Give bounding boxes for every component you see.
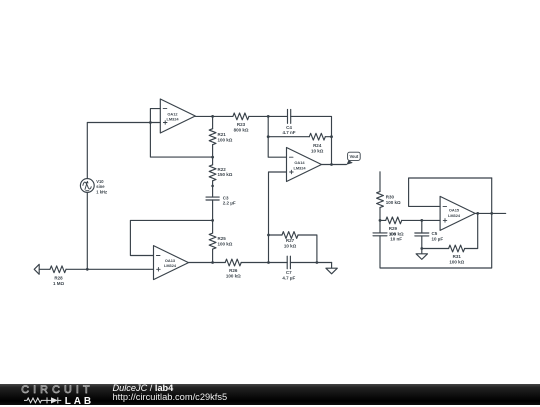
op-amp OA12: [160, 99, 195, 133]
svg-text:R28: R28: [54, 276, 63, 281]
node junction R21/R22/feedback: [211, 156, 214, 159]
svg-text:LM324: LM324: [293, 165, 306, 170]
node junction V10 bottom: [86, 268, 89, 271]
wire C7 to ground: [290, 262, 331, 264]
node junction R23/R24/OA14: [267, 115, 270, 118]
node junction R27/C7 right: [316, 261, 319, 264]
resistor R23: [233, 113, 249, 120]
wire C4 to right corner: [291, 116, 332, 136]
svg-text:R29: R29: [389, 226, 398, 231]
svg-text:OA14: OA14: [294, 160, 305, 165]
resistor R29: [386, 217, 402, 224]
wire branch down to R24: [267, 116, 269, 136]
wire R24 right: [325, 136, 331, 138]
logo LAB wordmark: [65, 396, 94, 407]
wire R31 up to output: [465, 213, 478, 248]
flag Vout: [346, 152, 360, 165]
svg-text:1 kHz: 1 kHz: [96, 189, 107, 194]
node junction R24 left: [267, 135, 270, 138]
op-amp OA15: [440, 196, 475, 230]
svg-text:LM324: LM324: [164, 263, 177, 268]
resistor R24: [309, 133, 325, 140]
footer url line: [113, 393, 228, 403]
logo resistor zigzag: [22, 396, 92, 406]
node junction OA13 output: [211, 261, 214, 264]
wire R30 top stub: [379, 172, 381, 192]
node junction OA14 + branch: [267, 261, 270, 264]
wire C6 bottom rail loop: [380, 178, 492, 268]
resistor R27: [282, 232, 298, 239]
footer title line: [113, 384, 174, 394]
node junction C5 top: [420, 219, 423, 222]
svg-text:100 kΩ: 100 kΩ: [226, 273, 241, 278]
svg-text:4.7 nF: 4.7 nF: [282, 130, 295, 135]
wire R26 to C7: [241, 262, 287, 264]
node junction C5 bottom / R31: [420, 247, 423, 250]
node junction OA14 output: [330, 163, 333, 166]
svg-text:OA13: OA13: [165, 258, 176, 263]
wire R27 left lead: [269, 234, 283, 236]
OA15 + input mark: [443, 219, 447, 223]
wire to OA14 - input: [268, 137, 286, 158]
node junction output / loop: [490, 212, 493, 215]
svg-text:C3: C3: [223, 195, 229, 200]
wire OA12 - input feedback: [150, 109, 212, 158]
resistor R22: [209, 157, 216, 186]
resistor R21: [209, 116, 216, 157]
svg-text:OA12: OA12: [167, 111, 178, 116]
svg-text:C4: C4: [286, 125, 292, 130]
ground symbol (bottom rail): [326, 263, 337, 274]
capacitor C4: [288, 109, 291, 123]
OA14 - input mark: [289, 156, 293, 158]
wire C5 node to R31: [422, 248, 449, 250]
svg-text:R25: R25: [218, 236, 227, 241]
OA13 - input mark: [156, 255, 160, 257]
node junction R24/C4 right: [330, 135, 333, 138]
svg-text:C7: C7: [286, 270, 292, 275]
capacitor C6: [373, 220, 387, 235]
wire OA13 - feedback loop: [130, 220, 212, 255]
resistor R31: [449, 245, 465, 252]
node junction R27 left: [267, 234, 270, 237]
op-amp OA14: [287, 148, 322, 182]
svg-text:800 kΩ: 800 kΩ: [234, 128, 249, 133]
capacitor C3: [206, 186, 219, 221]
wire OA14 + input: [269, 172, 287, 235]
svg-text:100 kΩ: 100 kΩ: [386, 200, 401, 205]
svg-text:150 kΩ: 150 kΩ: [218, 172, 233, 177]
svg-text:V10: V10: [96, 179, 104, 184]
OA14 + input mark: [290, 170, 294, 174]
svg-text:R26: R26: [229, 268, 238, 273]
wire OA15 - feedback loop: [409, 178, 492, 206]
footer bar: [0, 384, 540, 406]
resistor R25: [209, 220, 216, 262]
node junction R30/R29/C6: [379, 219, 382, 222]
svg-text:R23: R23: [237, 122, 246, 127]
node junction OA15 output / R31: [476, 212, 479, 215]
wire R29 to OA15 + input: [402, 219, 440, 221]
OA13 + input mark: [157, 268, 161, 272]
svg-text:10 kΩ: 10 kΩ: [311, 149, 324, 154]
svg-text:100 kΩ: 100 kΩ: [218, 241, 233, 246]
wire V10 bottom: [86, 192, 88, 269]
svg-text:100 kΩ: 100 kΩ: [449, 259, 464, 264]
svg-text:10 µF: 10 µF: [432, 236, 444, 241]
ground symbol (C5): [416, 249, 427, 260]
node junction at OA12 + / feedback crossing: [149, 121, 152, 124]
svg-text:2.2 µF: 2.2 µF: [223, 201, 236, 206]
wire R27 right, down to rail: [298, 235, 317, 263]
svg-text:Vout: Vout: [350, 154, 359, 159]
wire OA13 output: [189, 262, 226, 264]
wire R30 to node: [379, 208, 381, 221]
node junction C3/R25/feedback: [211, 219, 214, 222]
wire V10 top to OA12 + input: [87, 123, 160, 179]
OA12 + input mark: [163, 121, 167, 125]
OA15 - input mark: [443, 205, 447, 207]
svg-text:R24: R24: [313, 143, 322, 148]
capacitor C5: [415, 220, 429, 248]
svg-text:C5: C5: [432, 231, 438, 236]
svg-text:R21: R21: [218, 132, 227, 137]
logo CIRCUIT wordmark: [21, 384, 93, 396]
resistor R28: [50, 266, 66, 273]
wire R23 to C4 node: [249, 115, 288, 117]
svg-text:100 kΩ: 100 kΩ: [218, 137, 233, 142]
svg-text:R31: R31: [453, 254, 462, 259]
wire node to R29: [380, 219, 386, 221]
node junction R22/C3: [211, 185, 214, 188]
voltage source V10: [80, 179, 94, 193]
wire OA14 + branch down: [268, 235, 270, 263]
svg-text:LM324: LM324: [166, 117, 179, 122]
resistor R26: [225, 259, 241, 266]
wire OA14 output: [322, 164, 347, 166]
svg-text:OA15: OA15: [449, 208, 460, 213]
capacitor C7: [287, 256, 290, 269]
svg-text:1 MΩ: 1 MΩ: [53, 281, 65, 286]
svg-text:10 kΩ: 10 kΩ: [284, 243, 297, 248]
resistor R30: [377, 192, 384, 208]
svg-text:4.7 µF: 4.7 µF: [282, 275, 295, 280]
svg-text:R27: R27: [286, 238, 295, 243]
svg-text:R30: R30: [386, 194, 395, 199]
wire OA12 output: [195, 115, 233, 117]
input port terminal: [34, 264, 39, 274]
op-amp OA13: [154, 246, 189, 280]
node junction OA12 output: [211, 115, 214, 118]
wire OA15 output: [475, 212, 506, 214]
svg-text:R22: R22: [218, 167, 227, 172]
wire port to R28: [39, 268, 50, 270]
wire down to OA14 output: [331, 137, 333, 165]
svg-text:LM324: LM324: [448, 213, 461, 218]
svg-text:10 nF: 10 nF: [390, 237, 402, 242]
OA12 - input mark: [163, 108, 167, 110]
wire to R24: [268, 136, 309, 138]
svg-text:sine: sine: [96, 184, 105, 189]
wire R28 to OA13 + input: [66, 268, 154, 270]
